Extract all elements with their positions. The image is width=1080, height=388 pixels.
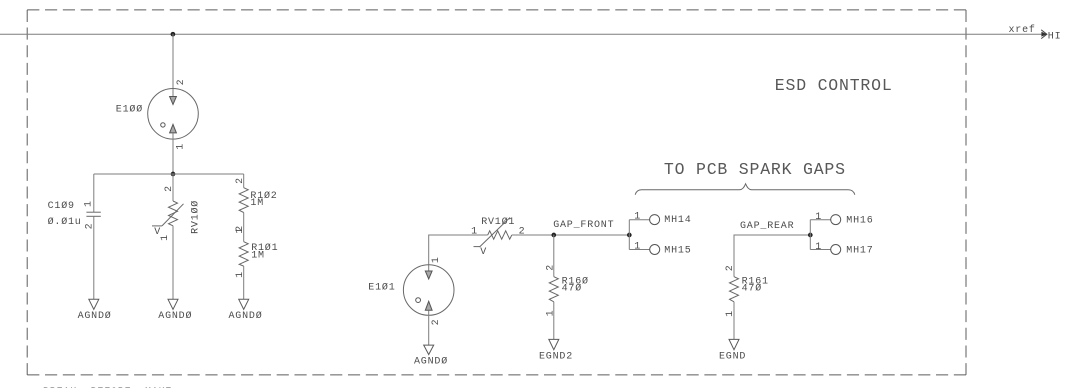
svg-text:1: 1 xyxy=(634,212,641,223)
wire front branch vertical xyxy=(628,220,630,250)
svg-text:47Ø: 47Ø xyxy=(562,283,582,295)
svg-text:RV1ØØ: RV1ØØ xyxy=(190,200,202,234)
mounting hole MH17 xyxy=(831,245,841,255)
capacitor C109 xyxy=(86,212,100,216)
resistor R161 xyxy=(730,277,739,302)
svg-text:47Ø: 47Ø xyxy=(742,283,762,295)
wire C109 bottom stem xyxy=(93,216,95,299)
svg-text:1M: 1M xyxy=(250,198,264,209)
svg-text:1: 1 xyxy=(815,242,822,253)
svg-text:EGND: EGND xyxy=(719,352,746,363)
wire R160 top stem xyxy=(553,235,555,277)
node junction below E100 xyxy=(171,172,174,175)
svg-text:1: 1 xyxy=(815,212,822,223)
wire RV100 top stem xyxy=(172,174,174,201)
varistor RV100 xyxy=(152,201,184,226)
svg-text:1: 1 xyxy=(431,256,442,263)
svg-text:AGNDØ: AGNDØ xyxy=(414,356,448,368)
wire between R102 and R101 xyxy=(243,213,245,242)
svg-text:E1Ø1: E1Ø1 xyxy=(368,281,395,293)
svg-text:2: 2 xyxy=(431,319,442,326)
svg-text:AGNDØ: AGNDØ xyxy=(78,310,112,322)
svg-text:2: 2 xyxy=(725,264,736,271)
wire R101 bottom stem xyxy=(243,266,245,299)
spark gap E101 xyxy=(403,265,454,316)
svg-text:TO PCB SPARK GAPS: TO PCB SPARK GAPS xyxy=(664,160,846,179)
resistor R102 xyxy=(239,188,248,213)
svg-text:2: 2 xyxy=(519,226,526,237)
varistor RV101 xyxy=(474,218,512,248)
svg-text:EGND2: EGND2 xyxy=(539,352,573,363)
svg-text:Ø.Ø1u: Ø.Ø1u xyxy=(48,216,82,228)
wire to MH16 xyxy=(810,219,830,221)
node MH rear branch junction xyxy=(809,233,812,236)
junction on HI bus at E100 xyxy=(171,33,174,36)
ground AGND0 under RV100 xyxy=(168,299,178,309)
ground EGND xyxy=(729,339,739,349)
wire E100 top stem xyxy=(172,34,174,97)
svg-text:AGNDØ: AGNDØ xyxy=(158,310,192,322)
resistor R101 xyxy=(239,242,248,266)
svg-text:1: 1 xyxy=(471,226,478,237)
svg-text:V: V xyxy=(480,247,487,258)
svg-text:E1ØØ: E1ØØ xyxy=(116,103,143,115)
svg-text:2: 2 xyxy=(546,264,557,271)
svg-text:2: 2 xyxy=(235,225,246,232)
svg-text:1: 1 xyxy=(160,234,171,241)
svg-text:C1Ø9: C1Ø9 xyxy=(48,200,75,212)
wire to MH15 xyxy=(629,249,649,251)
wire GAP_REAR rail xyxy=(734,235,810,277)
wire RV100 bottom stem xyxy=(172,226,174,299)
svg-text:ESD CONTROL: ESD CONTROL xyxy=(775,76,893,95)
wire RV101 to MH branch xyxy=(512,234,630,236)
wire E100 bottom stem xyxy=(172,133,174,174)
svg-text:1: 1 xyxy=(176,143,187,150)
svg-text:MH14: MH14 xyxy=(664,215,691,226)
wire rear branch vertical xyxy=(809,220,811,250)
resistor R160 xyxy=(549,277,558,302)
wire to MH17 xyxy=(810,249,830,251)
mounting hole MH14 xyxy=(650,215,660,225)
svg-text:1: 1 xyxy=(84,200,95,207)
svg-text:AGNDØ: AGNDØ xyxy=(228,310,262,322)
svg-text:1: 1 xyxy=(634,242,641,253)
svg-text:MH15: MH15 xyxy=(664,245,691,256)
mounting hole MH15 xyxy=(650,245,660,255)
svg-text:GAP_FRONT: GAP_FRONT xyxy=(553,220,614,231)
svg-text:MH16: MH16 xyxy=(846,215,873,226)
svg-text:GAP_REAR: GAP_REAR xyxy=(740,221,794,232)
svg-text:HI: HI xyxy=(1048,31,1062,42)
xref off-page arrow xyxy=(1041,30,1047,39)
node MH front branch junction xyxy=(628,233,631,236)
ground AGND0 under C109 xyxy=(89,299,99,309)
wire E101 bottom stem xyxy=(428,310,430,345)
svg-text:xref: xref xyxy=(1009,24,1036,36)
wire C109 top stem xyxy=(93,174,95,212)
spark gap E100 xyxy=(148,89,199,140)
wire horizontal C109/RV100/R102 rail xyxy=(94,173,244,175)
ground AGND0 under R101 xyxy=(239,299,249,309)
wire R160 bottom stem xyxy=(553,302,555,340)
wire to MH14 xyxy=(629,219,649,221)
node GAP_FRONT xyxy=(552,233,555,236)
svg-text:2: 2 xyxy=(176,79,187,86)
svg-text:1: 1 xyxy=(546,310,557,317)
svg-text:2: 2 xyxy=(235,177,246,184)
wire R161 bottom stem xyxy=(733,302,735,340)
svg-text:1: 1 xyxy=(235,271,246,278)
svg-text:1M: 1M xyxy=(251,251,265,262)
brace over spark gap columns xyxy=(635,184,855,195)
mounting hole MH16 xyxy=(831,215,841,225)
svg-text:MH17: MH17 xyxy=(846,246,873,257)
ground EGND2 xyxy=(549,339,559,349)
ground AGND0 under E101 xyxy=(424,345,434,354)
wire net HI (top horizontal bus) xyxy=(0,33,1044,35)
wire E101 top stem and corner xyxy=(429,235,488,271)
wire R102 top stem xyxy=(243,174,245,188)
